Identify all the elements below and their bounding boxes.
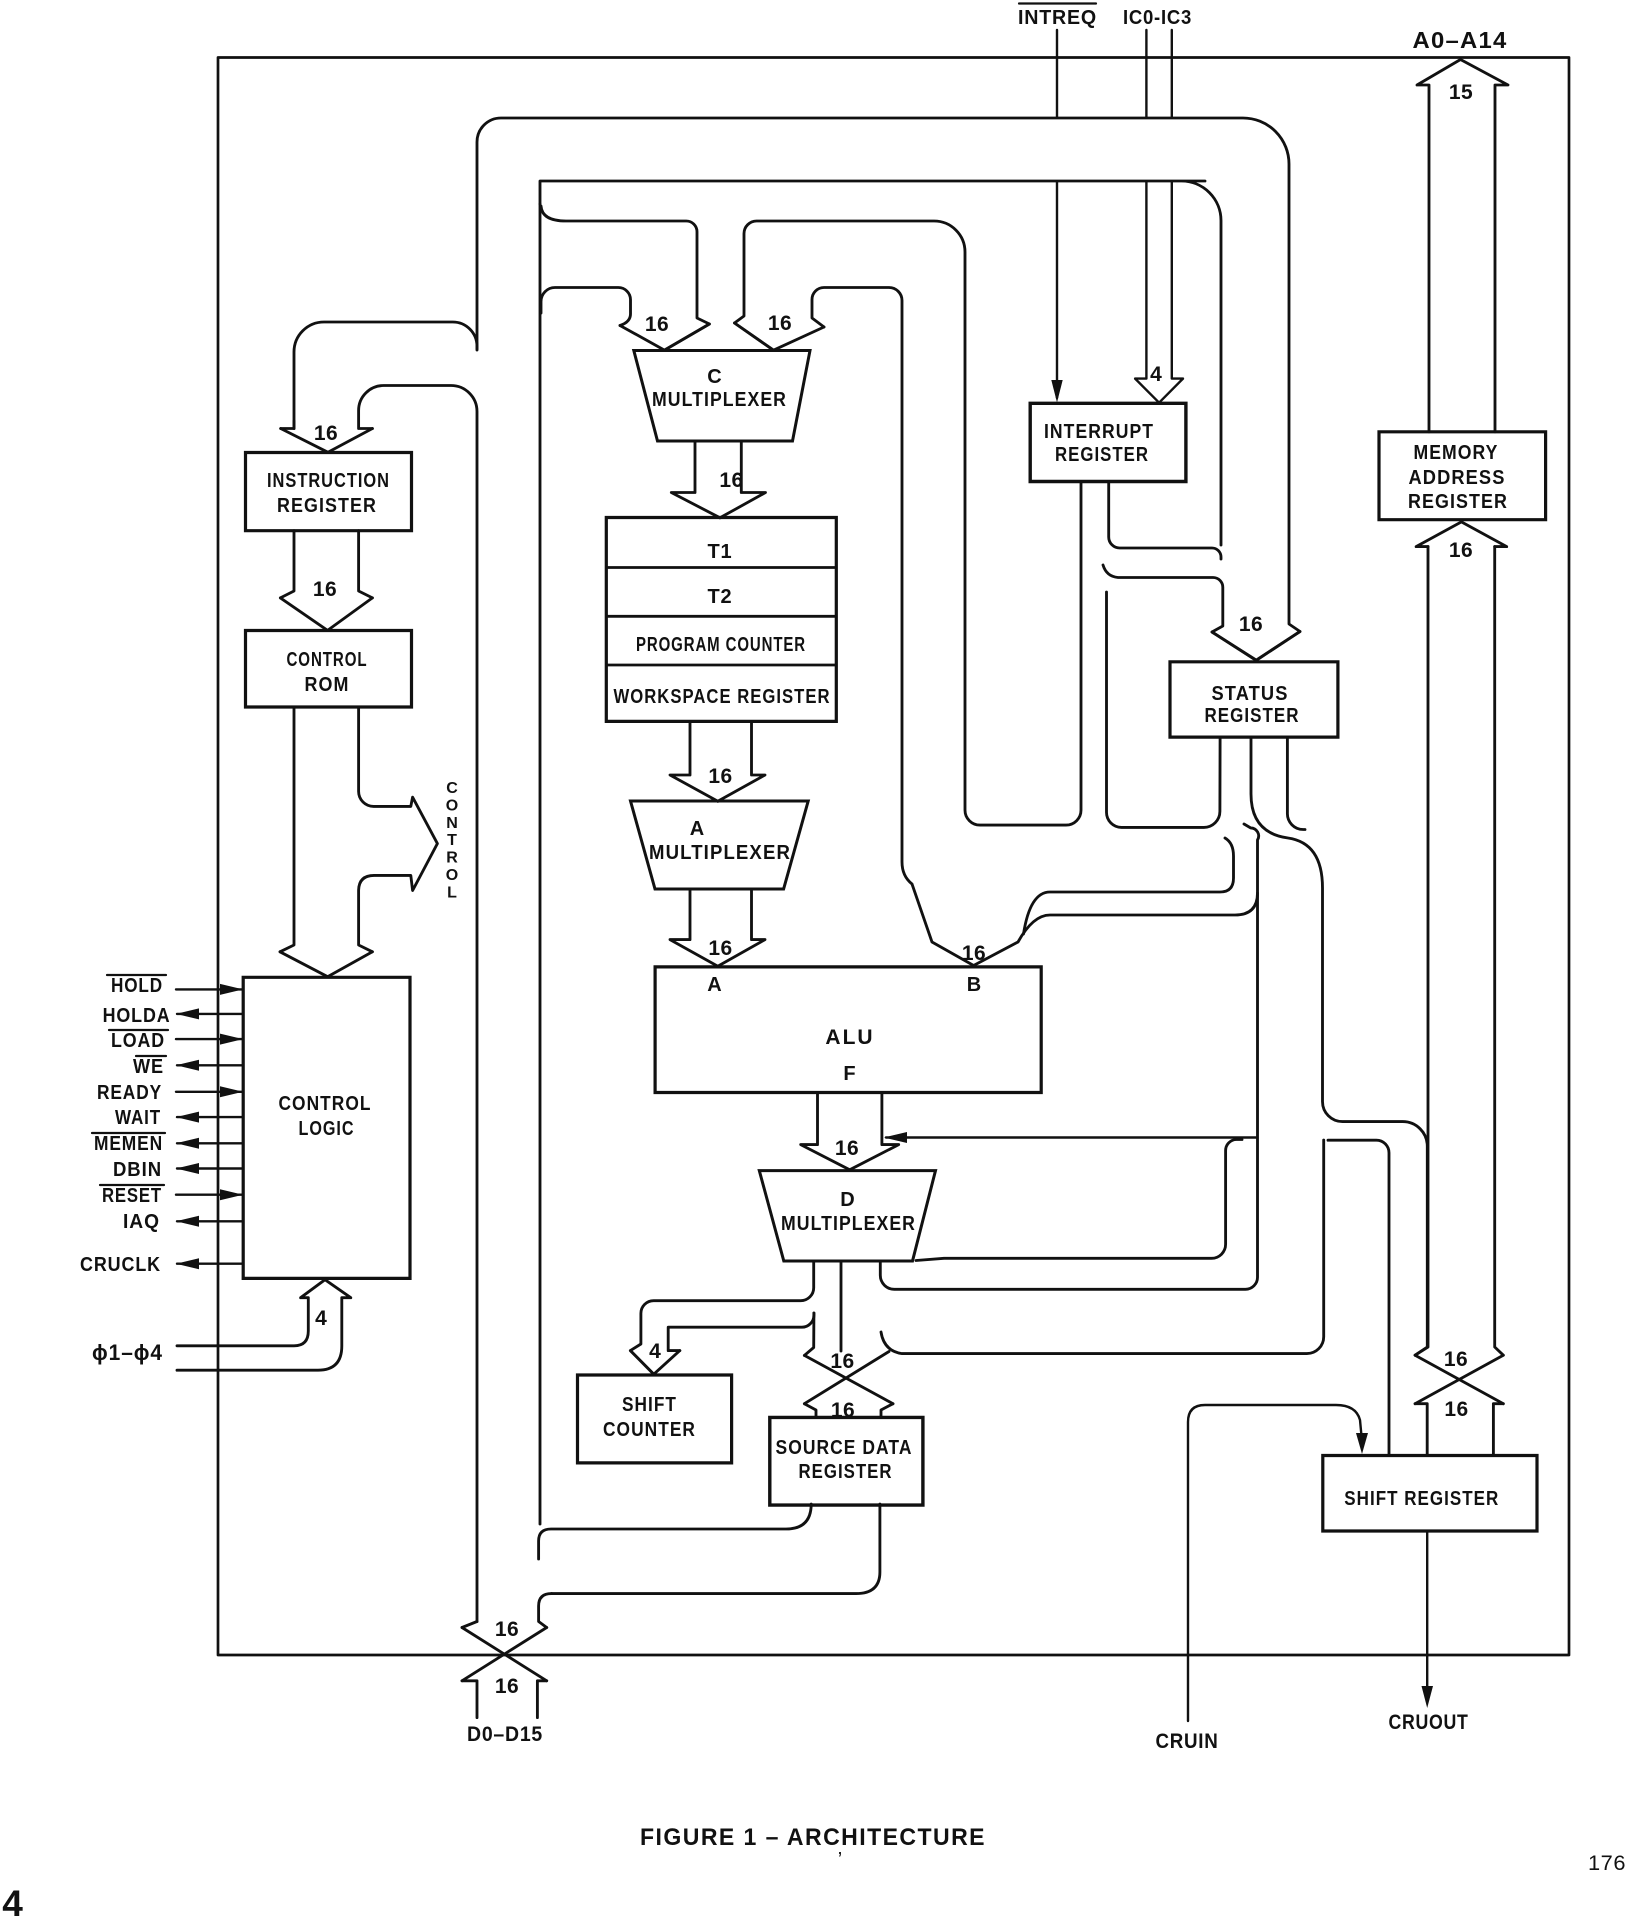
svg-text:CRUIN: CRUIN [1156,1730,1219,1753]
svg-text:REGISTER: REGISTER [1055,444,1149,466]
svg-text:INSTRUCTION: INSTRUCTION [267,470,390,492]
branch bottom line / status arrow left feeder [1103,565,1256,660]
svg-text:REGISTER: REGISTER [1408,491,1508,513]
arrow out DBIN [176,1163,199,1174]
arrow out CRUCLK [176,1258,199,1269]
arrowhead into C multiplexer right [735,323,825,350]
left bus outer jog to D0 bowtie [462,1622,477,1628]
svg-text:A: A [690,818,704,840]
D-mux left output / shift counter branch [630,1262,813,1374]
overline WE [136,1055,166,1057]
svg-text:MEMORY: MEMORY [1414,442,1499,464]
MAR shaft left line [1415,547,1428,1356]
solid arrow INTREQ [1051,380,1062,403]
shift counter branch bottom line [668,1313,814,1351]
IC3 line upper [1171,30,1173,117]
svg-text:16: 16 [313,578,337,601]
svg-text:WE: WE [133,1056,164,1078]
arrow into control logic LOAD [220,1034,243,1045]
SR bowtie diagonal 1 [1415,1355,1503,1404]
second bus bottom line / C-mux centre shaft left line [541,206,709,350]
arrow into control logic HOLD [220,984,243,995]
svg-text:A: A [707,974,721,996]
svg-text:16: 16 [1444,1348,1468,1371]
D multiplexer trapezoid [759,1171,935,1261]
svg-text:16: 16 [831,1399,855,1422]
interrupt register box [1030,403,1186,481]
svg-text:4: 4 [315,1307,327,1330]
svg-text:16: 16 [719,469,743,492]
svg-text:T1: T1 [708,541,733,563]
IR to control ROM shaft right [359,531,373,598]
phi1-phi4 lower line into 4-arrow [177,1280,351,1371]
svg-text:16: 16 [835,1137,859,1160]
hairpin feeder to C-mux left input [541,288,631,326]
stack to A-mux shaft right [718,721,765,801]
svg-text:16: 16 [962,942,986,965]
svg-text:’: ’ [838,1849,842,1871]
overline HOLD [107,974,166,976]
svg-text:16: 16 [1449,539,1473,562]
instruction register box [246,453,412,531]
left bus outer line / IR branch bottom line [359,386,477,1622]
SDR bowtie diagonal 1 [804,1355,893,1403]
status outputs merge / right loop down / hairpin outer [1251,737,1427,1355]
SDR bowtie diagonal 2 [804,1352,889,1404]
INTREQ line lower [1056,182,1058,398]
solid arrow left into F shaft [884,1132,907,1143]
svg-text:SOURCE DATA: SOURCE DATA [776,1437,913,1459]
IR arrow left jog [281,421,294,429]
A-mux to ALU shaft right [718,889,765,966]
arrowhead into C multiplexer left [620,324,709,350]
svg-text:LOGIC: LOGIC [299,1118,355,1140]
left bus inner bottom tail [539,1594,552,1628]
svg-text:ROM: ROM [305,674,350,696]
svg-text:N: N [446,815,458,832]
svg-text:16: 16 [708,765,732,788]
svg-text:REGISTER: REGISTER [799,1461,893,1483]
svg-text:COUNTER: COUNTER [603,1419,696,1441]
D-mux right output top line [916,1140,1242,1261]
interrupt return channel / second bus extension / C-mux shaft right line [735,221,1082,825]
stack divider PC/WR [606,664,836,667]
stack to A-mux shaft left [670,721,718,801]
solid arrow CRUOUT [1422,1686,1434,1708]
memory address register box [1379,432,1546,520]
svg-text:SHIFT: SHIFT [622,1394,677,1416]
ROM to logic right line with CONTROL arrow branch [359,707,438,952]
D0-D15 bowtie diagonal 1 [462,1628,547,1681]
A multiplexer trapezoid [631,801,809,889]
svg-text:16: 16 [1444,1398,1468,1421]
svg-text:IAQ: IAQ [123,1211,160,1233]
svg-text:MULTIPLEXER: MULTIPLEXER [652,389,787,411]
overline LOAD [109,1029,168,1031]
instruction register branch top line [294,322,477,429]
svg-text:16: 16 [314,422,338,445]
arrow out HOLDA [176,1008,199,1019]
bus top inner line / right bus left line [540,181,1221,545]
MAR shaft right line [1495,547,1504,1356]
svg-text:O: O [446,867,458,884]
svg-text:O: O [446,797,458,814]
SR bowtie lower right shaft [1493,1404,1503,1454]
arrowhead into control ROM [280,598,372,631]
stack divider T1/T2 [606,566,836,569]
status register box [1170,662,1338,737]
svg-text:R: R [446,850,458,867]
hairpin feeder C-mux right / channel down to ALU B [812,288,974,966]
register stack box [606,518,836,722]
svg-text:RESET: RESET [102,1185,162,1207]
figure border frame [218,58,1569,1656]
svg-text:READY: READY [97,1082,162,1104]
signal line HOLD [176,988,242,990]
svg-text:MULTIPLEXER: MULTIPLEXER [649,842,791,864]
SR bowtie lower left shaft [1415,1404,1427,1454]
solid arrow into shift register [1356,1433,1368,1454]
signal line CRUCLK [177,1262,243,1264]
arrow into control logic READY [220,1086,243,1097]
svg-text:ADDRESS: ADDRESS [1409,467,1506,489]
SDR bowtie inner shaft line [840,1262,843,1351]
svg-text:L: L [447,884,457,901]
stack divider T2/PC [606,615,836,618]
svg-text:16: 16 [1239,613,1263,636]
status register arrowhead V [1212,632,1300,661]
svg-text:CONTROL: CONTROL [279,1093,372,1115]
overline MEMEN [92,1132,165,1134]
svg-text:DBIN: DBIN [113,1159,162,1181]
arrowhead into instruction register [281,429,373,453]
D0-D15 lower left shaft [462,1681,477,1718]
svg-text:16: 16 [645,313,669,336]
signal line WE [177,1064,243,1066]
C-mux to T1 stack shaft left [671,441,720,518]
svg-text:16: 16 [495,1675,519,1698]
svg-text:CRUCLK: CRUCLK [80,1254,161,1276]
phi1-phi4 upper line into 4-arrow [177,1280,325,1346]
svg-text:C: C [446,780,458,797]
svg-text:HOLD: HOLD [111,975,163,997]
svg-text:FIGURE 1 – ARCHITECTURE: FIGURE 1 – ARCHITECTURE [640,1824,986,1851]
svg-text:LOAD: LOAD [111,1030,165,1052]
svg-text:REGISTER: REGISTER [1205,705,1300,727]
U-turn channel under status register into status left output [1107,592,1221,827]
left bus inner line [539,204,542,1524]
bottom channel lower line [552,1504,880,1594]
ALU box [655,967,1041,1093]
ALU B arrow right side and right feeder line [974,893,1258,966]
bus top outer line / right bus right line [477,118,1300,660]
svg-text:STATUS: STATUS [1212,683,1289,705]
INTREQ overline [1019,2,1096,4]
CRUOUT line [1426,1532,1428,1694]
source data register outlet channel to right loop [881,1140,1324,1354]
svg-text:REGISTER: REGISTER [277,495,377,517]
bottom channel top line to SDR [539,1504,812,1559]
svg-text:T: T [447,832,457,849]
svg-text:ALU: ALU [825,1026,874,1049]
svg-text:F: F [843,1063,855,1085]
svg-text:WAIT: WAIT [115,1107,161,1129]
overline RESET [100,1184,164,1186]
IC3 line with 4-arrow right [1159,182,1183,403]
ALU F to D-mux shaft left [801,1093,850,1170]
control ROM box [246,631,412,708]
status register right output line [1287,737,1305,830]
signal line DBIN [177,1167,243,1169]
svg-text:IC0-IC3: IC0-IC3 [1123,7,1192,29]
svg-text:D: D [840,1189,854,1211]
SDR bowtie lower right jog [881,1404,893,1417]
feedback line into ALU F output [886,1136,1256,1138]
C-mux to T1 stack shaft right [720,441,766,518]
svg-text:ϕ1–ϕ4: ϕ1–ϕ4 [92,1340,163,1365]
svg-text:16: 16 [708,937,732,960]
hairpin inner line down to shift register [1328,1140,1389,1454]
ROM to control logic left line [280,707,294,952]
A0-A14 15-arrow [1417,60,1508,432]
svg-text:D0–D15: D0–D15 [467,1723,543,1746]
svg-text:MULTIPLEXER: MULTIPLEXER [781,1213,916,1235]
C multiplexer trapezoid [634,351,810,442]
arrowhead into control logic [280,952,372,977]
interrupt register right output to right bus [1109,482,1221,560]
arrow out WE [176,1060,199,1071]
A-mux to ALU shaft left [670,889,718,966]
svg-text:MEMEN: MEMEN [94,1133,163,1155]
svg-text:4: 4 [1150,363,1162,386]
arrow out IAQ [176,1216,199,1227]
control logic box [243,977,410,1278]
arrow out WAIT [176,1112,199,1123]
svg-text:CONTROL: CONTROL [287,649,368,671]
svg-text:C: C [707,366,721,388]
svg-text:B: B [967,974,981,996]
svg-text:CRUOUT: CRUOUT [1389,1711,1469,1734]
svg-text:SHIFT REGISTER: SHIFT REGISTER [1344,1488,1499,1510]
IC0 line with 4-arrow left [1135,182,1159,403]
CRUIN line into shift register [1188,1405,1362,1721]
svg-text:15: 15 [1449,81,1473,104]
arrow out MEMEN [176,1138,199,1149]
SR bowtie diagonal 2 [1415,1355,1503,1404]
svg-text:INTREQ: INTREQ [1018,7,1097,29]
signal line HOLDA [177,1013,243,1015]
svg-text:HOLDA: HOLDA [103,1005,171,1027]
arrow into control logic RESET [220,1189,243,1200]
D0-D15 lower right shaft [537,1681,546,1718]
svg-text:4: 4 [649,1340,661,1363]
svg-text:16: 16 [495,1618,519,1641]
signal line READY [176,1091,242,1093]
shift counter box [578,1375,732,1463]
SDR bowtie lower left jog [804,1404,816,1417]
svg-text:176: 176 [1588,1852,1626,1875]
svg-text:16: 16 [768,312,792,335]
svg-text:PROGRAM COUNTER: PROGRAM COUNTER [636,634,806,656]
MAR shaft right top jog [1461,522,1506,547]
shift register box [1323,1456,1537,1532]
signal line RESET [176,1193,242,1195]
channel down to SDR bowtie left [804,1313,814,1355]
svg-text:16: 16 [830,1350,854,1373]
svg-text:4: 4 [2,1883,23,1920]
svg-text:A0–A14: A0–A14 [1413,27,1508,53]
D0-D15 bowtie diagonal 2 [462,1628,547,1681]
IC0 line upper [1145,30,1147,117]
source data register box [770,1417,923,1505]
svg-text:T2: T2 [708,586,733,608]
IR to control ROM shaft left [280,531,294,598]
shift counter arrowhead V [630,1351,679,1375]
ALU F to D-mux shaft right [850,1093,899,1170]
signal line LOAD [176,1038,242,1040]
signal line IAQ [177,1220,243,1222]
signal line MEMEN [177,1142,243,1144]
INTREQ line upper [1056,30,1058,117]
signal line WAIT [177,1116,243,1118]
loop line D-mux right output to status junction [880,824,1258,1289]
svg-text:WORKSPACE REGISTER: WORKSPACE REGISTER [614,686,831,708]
MAR shaft left top jog [1416,522,1461,547]
svg-text:INTERRUPT: INTERRUPT [1044,421,1154,443]
ALU B right feeder top line [1024,838,1234,934]
